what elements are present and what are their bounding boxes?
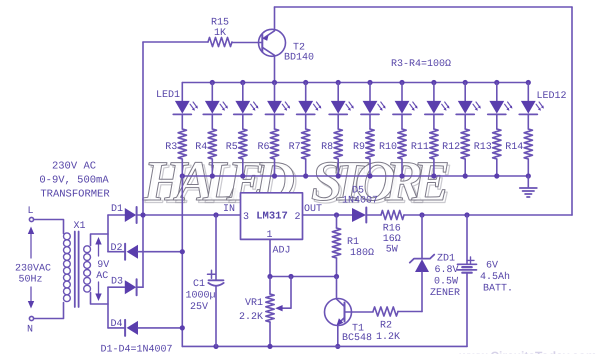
svg-text:0-9V, 500mA: 0-9V, 500mA: [39, 175, 109, 187]
svg-text:R15: R15: [211, 18, 229, 29]
svg-text:R12: R12: [442, 142, 460, 153]
resistor R7: [289, 129, 310, 176]
svg-text:R2: R2: [380, 321, 392, 332]
wire L to primary: [34, 220, 64, 234]
junction cathode bus col11: [494, 173, 499, 178]
svg-text:VR1: VR1: [245, 298, 263, 309]
junction cathode bus col9: [431, 173, 436, 178]
junction C1 bottom: [213, 344, 218, 349]
resistor R1: [332, 215, 374, 277]
junction R1-T1: [334, 274, 339, 279]
junction R1 tap: [334, 212, 339, 217]
svg-text:OUT: OUT: [304, 204, 322, 215]
potentiometer VR1: [239, 277, 291, 347]
svg-text:BD140: BD140: [284, 53, 314, 64]
svg-text:R13: R13: [474, 142, 492, 153]
transformer X1 secondary winding: [84, 246, 91, 292]
resistor R13: [474, 129, 501, 176]
resistor R14: [505, 129, 532, 176]
svg-text:AC: AC: [96, 271, 108, 282]
junction cathode bus col1: [180, 173, 185, 178]
resistor R16: [381, 210, 404, 255]
junction C1 on rail: [213, 212, 218, 217]
svg-text:R3-R4=100Ω: R3-R4=100Ω: [391, 59, 451, 70]
junction anode bus col2: [210, 80, 215, 85]
svg-text:X1: X1: [73, 221, 85, 232]
diode D3: [108, 277, 137, 296]
junction anode bus col11: [494, 80, 499, 85]
svg-text:D2: D2: [111, 243, 123, 254]
svg-text:ZENER: ZENER: [430, 288, 460, 299]
resistor R12: [442, 129, 469, 176]
resistor R3: [165, 129, 186, 176]
junction anode bus col5: [303, 80, 308, 85]
svg-text:R8: R8: [321, 142, 333, 153]
resistor R15: [208, 18, 232, 47]
diode D1: [108, 204, 137, 223]
junction anode bus col10: [463, 80, 468, 85]
diode D5: [342, 186, 381, 223]
LED9: [425, 83, 450, 130]
junction cathode bus col6: [336, 173, 341, 178]
LED11: [488, 83, 513, 130]
junction wiper tap: [288, 274, 293, 279]
svg-text:9V: 9V: [97, 260, 109, 271]
svg-text:R5: R5: [226, 142, 238, 153]
battery BT1 6V: [458, 215, 514, 346]
svg-text:6.8V: 6.8V: [435, 265, 459, 276]
resistor R8: [321, 129, 342, 176]
svg-text:BC548: BC548: [342, 333, 372, 344]
LED1: [173, 83, 198, 130]
svg-text:R7: R7: [289, 142, 301, 153]
svg-text:R10: R10: [379, 142, 397, 153]
svg-text:BATT.: BATT.: [483, 284, 513, 295]
svg-text:ZD1: ZD1: [437, 254, 455, 265]
junction cathode bus ground: [526, 173, 531, 178]
svg-text:50Hz: 50Hz: [18, 275, 42, 286]
wire bridge left lower: [107, 287, 109, 328]
svg-text:230VAC: 230VAC: [15, 264, 51, 275]
transformer X1 core: [75, 232, 79, 308]
wire ADJ down: [269, 239, 271, 276]
svg-text:R11: R11: [411, 142, 429, 153]
resistor R11: [411, 129, 438, 176]
transistor Q T2 BD140 (PNP): [259, 29, 315, 63]
svg-text:TRANSFORMER: TRANSFORMER: [40, 189, 110, 201]
resistor R4: [195, 129, 216, 176]
svg-text:1N4007: 1N4007: [342, 196, 378, 207]
junction ZD1 tap: [419, 212, 424, 217]
svg-text:6V: 6V: [486, 261, 498, 272]
junction VR1 bottom: [267, 344, 272, 349]
svg-text:D1-D4=1N4007: D1-D4=1N4007: [100, 345, 172, 354]
capacitor C1: [185, 215, 223, 346]
resistor R5: [226, 129, 247, 176]
svg-text:4.5Ah: 4.5Ah: [480, 271, 510, 283]
junction cathode bus col5: [303, 173, 308, 178]
svg-text:5W: 5W: [386, 245, 398, 256]
arrow 9V AC span: [95, 237, 101, 301]
svg-text:R16: R16: [383, 224, 401, 235]
svg-text:R4: R4: [195, 142, 207, 153]
svg-text:1000µ: 1000µ: [185, 291, 215, 302]
junction T1 emitter: [335, 344, 340, 349]
junction anode bus col12: [526, 80, 531, 85]
svg-text:1K: 1K: [214, 28, 226, 39]
svg-text:25V: 25V: [190, 302, 208, 313]
resistor R10: [379, 129, 406, 176]
wire LED cathode bus: [182, 175, 528, 177]
wire T2 emitter up: [274, 7, 276, 30]
wire right edge down: [571, 7, 573, 215]
arrow 230VAC span: [28, 227, 34, 309]
wire unregulated DC vertical (R15/D3 feed): [142, 42, 144, 287]
wire LED anode bus: [182, 82, 528, 84]
junction cathode bus col10: [463, 173, 468, 178]
junction cathode bus col4: [272, 173, 277, 178]
wire secondary bottom: [91, 293, 109, 305]
zener diode ZD1: [410, 215, 460, 312]
svg-text:LED12: LED12: [537, 91, 567, 102]
junction anode bus col4: [272, 80, 277, 85]
svg-text:16Ω: 16Ω: [383, 234, 401, 245]
LED2: [203, 83, 228, 130]
wire ADJ node horizontal: [270, 276, 337, 278]
junction anode bus col7: [367, 80, 372, 85]
svg-text:3: 3: [243, 212, 249, 223]
wire R16 to battery rail: [404, 214, 572, 216]
wire D3 cathode up: [137, 286, 143, 288]
svg-text:IN: IN: [223, 204, 235, 215]
wire primary bottom to N: [34, 303, 64, 319]
ground: [520, 176, 537, 197]
LED4: [266, 83, 291, 130]
junction cathode bus col7: [367, 173, 372, 178]
svg-text:D3: D3: [111, 277, 123, 288]
junction anode bus col9: [431, 80, 436, 85]
svg-text:N: N: [27, 325, 33, 336]
svg-text:R3: R3: [165, 142, 177, 153]
junction anode bus col8: [399, 80, 404, 85]
svg-text:2.2K: 2.2K: [239, 312, 263, 323]
transistor Q T1 BC548 (NPN): [325, 277, 374, 347]
junction ADJ-VR1: [267, 274, 272, 279]
svg-text:STORE: STORE: [311, 150, 450, 213]
LED7: [361, 83, 386, 130]
LED5: [297, 83, 322, 130]
junction battery tap: [464, 212, 469, 217]
svg-text:LM317: LM317: [256, 211, 288, 223]
svg-text:2: 2: [294, 212, 300, 223]
diode D2: [108, 243, 182, 260]
LED12: [519, 83, 544, 130]
svg-text:R6: R6: [257, 142, 269, 153]
resistor R9: [353, 129, 374, 176]
wire top rail: [275, 6, 573, 8]
wire negative bus: [182, 345, 467, 347]
svg-text:D1: D1: [111, 204, 123, 215]
junction D2 negative: [180, 249, 185, 254]
wire IN rail: [137, 214, 241, 216]
junction cathode bus col8: [399, 173, 404, 178]
wire T2 collector down: [274, 56, 276, 83]
watermark HALED STORE: [142, 150, 452, 215]
terminal N: [27, 316, 34, 335]
svg-text:1.2K: 1.2K: [376, 332, 400, 343]
junction cathode bus col2: [210, 173, 215, 178]
wire R15 feed horizontal: [143, 41, 208, 43]
svg-text:0.5W: 0.5W: [434, 277, 458, 288]
LED10: [456, 83, 481, 130]
svg-text:ADJ: ADJ: [272, 246, 290, 257]
svg-text:C1: C1: [193, 279, 205, 290]
terminal L: [27, 206, 33, 222]
svg-text:L: L: [27, 206, 33, 217]
LED3: [234, 83, 259, 130]
transformer X1 primary winding: [64, 233, 71, 302]
wire bridge left upper: [107, 215, 109, 252]
svg-text:R1: R1: [347, 237, 359, 248]
wire LED return vertical (to negative bus): [181, 176, 183, 346]
svg-text:R9: R9: [353, 142, 365, 153]
resistor R2: [373, 307, 422, 343]
wire secondary top: [91, 234, 109, 246]
svg-text:R14: R14: [505, 142, 523, 153]
LED8: [393, 83, 418, 130]
junction R15 feed on rail: [140, 212, 145, 217]
resistor R6: [257, 129, 278, 176]
regulator U1 LM317: [241, 193, 303, 241]
diode D4: [108, 319, 182, 336]
svg-text:D4: D4: [111, 319, 123, 330]
LED6: [329, 83, 354, 130]
junction cathode bus col3: [240, 173, 245, 178]
wire R15 to T2 base: [232, 42, 262, 44]
wire OUT to D5: [303, 214, 353, 216]
junction anode bus col6: [336, 80, 341, 85]
junction anode bus col3: [240, 80, 245, 85]
svg-text:180Ω: 180Ω: [350, 248, 374, 259]
junction D4 negative: [180, 325, 185, 330]
svg-text:www.CircuitsToday.com: www.CircuitsToday.com: [458, 349, 596, 354]
svg-text:230V AC: 230V AC: [52, 161, 96, 173]
svg-text:LED1: LED1: [156, 90, 180, 101]
